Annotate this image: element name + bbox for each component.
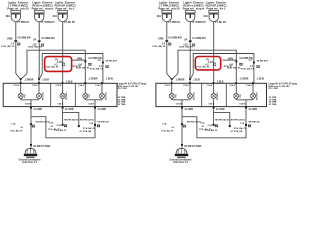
LT fuse block reference text 1 <box>7 0 29 10</box>
LT terminal at lamp E3 <box>62 82 64 84</box>
svg-text:JPC PN6: JPC PN6 <box>117 88 127 90</box>
LT fuse block reference text 2 <box>32 0 54 10</box>
RT wire below bulb E1 <box>171 99 173 100</box>
svg-text:RR-PRK 640: RR-PRK 640 <box>98 121 109 124</box>
RT wire from fuse F1 <box>166 22 168 74</box>
svg-text:LT TURN PV: LT TURN PV <box>41 21 55 24</box>
RT highlighted connector C9 (red box) <box>195 57 220 70</box>
LT ground tie bus wire1 to wire3 <box>31 117 95 138</box>
LT in-line connector C1 on wire F1 <box>14 40 17 42</box>
RT bulb E3 <box>211 93 216 98</box>
svg-text:0.8 ORN 640: 0.8 ORN 640 <box>168 36 182 39</box>
svg-text:.1 BLW: .1 BLW <box>105 78 113 80</box>
svg-text:10A: 10A <box>156 15 161 18</box>
svg-text:P21: P21 <box>24 94 26 97</box>
svg-text:C14 4: C14 4 <box>14 84 20 87</box>
svg-text:PCA_WA_PL: PCA_WA_PL <box>90 67 104 70</box>
svg-text:.1 GRBR: .1 GRBR <box>88 78 98 80</box>
RT jog wire from ground wire2 <box>214 112 230 125</box>
LT terminal at lamp E2 <box>38 82 40 84</box>
svg-text:C14 4: C14 4 <box>229 84 235 87</box>
svg-text:S4 RR-EXT: S4 RR-EXT <box>257 59 269 62</box>
svg-text:4.1: 4.1 <box>51 125 55 128</box>
svg-text:D2: D2 <box>240 64 242 66</box>
LT connector B2 symbol wire2 <box>64 125 67 127</box>
RT ground bus inside assembly E4-E5 <box>236 99 253 101</box>
RT bulb E5 <box>250 93 255 98</box>
svg-text:P21/5W L: P21/5W L <box>194 91 196 100</box>
LT ground splice dot <box>30 144 32 146</box>
svg-text:LT PRK PL: LT PRK PL <box>17 21 30 24</box>
svg-text:B2: B2 <box>98 126 100 128</box>
svg-text:0.4 ORN 640: 0.4 ORN 640 <box>192 37 206 40</box>
RT connector D2 symbol <box>168 43 171 45</box>
RT connector B2 symbol wire1 <box>183 125 186 127</box>
svg-text:S4: S4 <box>184 38 188 41</box>
svg-text:P21: P21 <box>175 94 177 97</box>
svg-text:0.8 ORN 640: 0.8 ORN 640 <box>17 36 31 39</box>
LT connector D2 symbol on bus A <box>89 63 92 65</box>
LT C9 connector symbol <box>62 63 65 66</box>
svg-text:P21/5W L: P21/5W L <box>43 91 45 100</box>
svg-text:ORN: ORN <box>158 37 164 40</box>
LT wire below bulb E4 <box>84 99 86 100</box>
RT connector on ground wire 1 <box>181 123 183 125</box>
svg-text:.1 BLR: .1 BLR <box>193 79 201 81</box>
svg-text:RR-PRK 640 NC: RR-PRK 640 NC <box>80 119 95 122</box>
svg-text:Page ref_ lts-1: Page ref_ lts-1 <box>207 7 226 11</box>
svg-text:4.1 PCA_BA: 4.1 PCA_BA <box>79 130 92 133</box>
RT junction at lamp E1 feed <box>171 78 173 80</box>
LT fuse F1 10A <box>11 11 21 13</box>
RT splice on bus A drop <box>235 60 237 62</box>
svg-text:1.7A: 1.7A <box>240 122 245 125</box>
svg-text:C06 B: C06 B <box>208 104 214 106</box>
svg-text:NCM_WA_PL: NCM_WA_PL <box>28 46 42 49</box>
RT splice on bus B drop <box>253 62 255 64</box>
LT wire from connector C9 to bus A <box>72 59 86 61</box>
svg-text:RR-PRK 640 NC: RR-PRK 640 NC <box>231 119 246 122</box>
LT terminal at lamp E1 <box>20 82 22 84</box>
svg-text:Grid Zone 4-7: Grid Zone 4-7 <box>22 161 38 164</box>
svg-text:C14 4: C14 4 <box>95 84 101 87</box>
svg-text:LT TURN PV: LT TURN PV <box>192 21 206 24</box>
svg-text:4.1: 4.1 <box>202 125 206 128</box>
RT wire from connector C9 to bus A <box>223 59 237 61</box>
RT C9 connector symbol <box>213 63 216 66</box>
svg-text:PCA_WA_PL: PCA_WA_PL <box>45 66 59 69</box>
RT terminal at lamp E1 <box>171 82 173 84</box>
RT terminal at lamp E5 <box>252 82 254 84</box>
RT connector D2 symbol on bus A <box>240 63 243 65</box>
LT wire below bulb E2 <box>38 99 40 100</box>
RT fuse block reference text 1 <box>158 0 180 10</box>
svg-text:B2: B2 <box>249 126 251 128</box>
RT splice S4 on wire F2 <box>189 40 192 42</box>
RT wire into bulb E4 <box>235 85 237 94</box>
svg-text:RR-PRK 640 NC: RR-PRK 640 NC <box>64 118 79 121</box>
svg-text:B2: B2 <box>216 126 218 128</box>
svg-text:1.7A: 1.7A <box>89 122 94 125</box>
RT wire bus B slant into lamp E2 <box>190 74 193 79</box>
LT wire into bulb E2 <box>38 85 40 94</box>
svg-text:Page ref_ stop-it: Page ref_ stop-it <box>183 7 205 11</box>
svg-text:.1 BRBR: .1 BRBR <box>24 79 34 81</box>
svg-text:S4: S4 <box>33 38 37 41</box>
RT ground wire 2 terminal <box>213 124 215 126</box>
LT ground exit terminal x=95.0 <box>94 107 96 109</box>
svg-text:G4 RR FU BAR: G4 RR FU BAR <box>33 145 50 148</box>
RT wire below bulb E3 <box>213 99 215 100</box>
LT ground drop 2 <box>62 100 64 107</box>
svg-text:P21/5W L: P21/5W L <box>106 91 108 100</box>
RT ground symbol G4 <box>176 148 187 153</box>
svg-text:RCA_W: RCA_W <box>73 65 82 68</box>
svg-text:J1-GRD: J1-GRD <box>65 108 74 111</box>
svg-text:J1-GRD: J1-GRD <box>184 108 193 111</box>
RT fuse F1 10A <box>162 11 172 13</box>
svg-text:C06 B: C06 B <box>25 104 31 106</box>
svg-text:Page ref_ stop-it: Page ref_ stop-it <box>32 7 54 11</box>
RT wire below bulb E5 <box>252 99 254 100</box>
svg-text:P21: P21 <box>240 94 242 97</box>
LT wire into bulb E4 <box>84 85 86 94</box>
svg-text:D2: D2 <box>169 44 171 46</box>
LT connector B2 symbol wire1 <box>32 125 35 127</box>
svg-text:J1-GRD: J1-GRD <box>248 108 257 111</box>
LT splice on bus A drop <box>84 60 86 62</box>
svg-text:G4 RR FU BAR: G4 RR FU BAR <box>184 145 201 148</box>
svg-text:JPC PN6: JPC PN6 <box>268 88 278 90</box>
LT connector D2 symbol <box>17 43 20 45</box>
svg-text:J5 TMB: J5 TMB <box>269 104 277 106</box>
RT bulb E1 <box>169 93 174 98</box>
LT splice S4 on wire F2 <box>38 40 41 42</box>
svg-text:C7A: C7A <box>49 121 54 124</box>
LT terminal at lamp E5 <box>101 82 103 84</box>
LT wire F1 slant into lamp E1 <box>16 74 21 79</box>
svg-text:B2: B2 <box>183 126 185 128</box>
LT wire below bulb E3 <box>62 99 64 100</box>
svg-text:D2: D2 <box>106 66 108 68</box>
LT wire bus B to lamp E5 <box>42 54 103 83</box>
LT wire below bulb E1 <box>20 99 22 100</box>
svg-text:4.1 PCA_BA: 4.1 PCA_BA <box>230 130 243 133</box>
svg-text:C14 4: C14 4 <box>246 84 252 87</box>
svg-text:S4 RR-EXT: S4 RR-EXT <box>106 59 118 62</box>
RT fuse F3 10A <box>209 11 219 13</box>
RT ground wire 2 <box>213 109 215 125</box>
svg-text:RCA_W: RCA_W <box>224 65 233 68</box>
LT fuse F2 10A <box>34 11 44 13</box>
svg-text:J1-GRD: J1-GRD <box>97 108 106 111</box>
svg-text:C06 B: C06 B <box>88 104 94 106</box>
svg-text:RR-PRK 640 NC: RR-PRK 640 NC <box>215 118 230 121</box>
svg-text:C06 B: C06 B <box>176 104 182 106</box>
RT ground exit terminal x=31 <box>181 107 183 109</box>
svg-text:PCA_BA_PL: PCA_BA_PL <box>161 129 174 132</box>
svg-text:C06 B: C06 B <box>57 104 63 106</box>
RT assembly divider 1 <box>201 83 203 106</box>
RT ground exit terminal x=95.0 <box>245 107 247 109</box>
svg-text:D2: D2 <box>257 66 259 68</box>
RT wire F2 slant into lamp E2 <box>189 74 192 79</box>
svg-text:10A: 10A <box>52 15 57 18</box>
LT wire F2 slant into lamp E2 <box>38 74 41 79</box>
RT wire bus B to lamp E5 <box>193 54 254 83</box>
LT wire from fuse F2 <box>38 22 40 74</box>
RT wire E2 junction to assembly <box>189 80 191 82</box>
svg-text:LT BU PV: LT BU PV <box>64 21 75 24</box>
RT ground drop 1 <box>181 100 183 107</box>
svg-text:.1 BLR: .1 BLR <box>42 79 50 81</box>
RT ground wire 1 <box>181 109 183 149</box>
LT ground drop 3 <box>94 100 96 107</box>
svg-text:4.1: 4.1 <box>172 126 176 129</box>
LT connector B2 symbol wire3 <box>97 125 100 127</box>
RT terminal at lamp E2 <box>189 82 191 84</box>
LT wire into bulb E5 <box>101 85 103 94</box>
svg-text:PCA_BA_PL: PCA_BA_PL <box>10 129 23 132</box>
svg-text:Grid Zone 4-7: Grid Zone 4-7 <box>173 161 189 164</box>
LT wire E2 junction to assembly <box>38 80 40 82</box>
svg-text:PCA_WA_PL: PCA_WA_PL <box>196 66 210 69</box>
LT wire from fuse F1 <box>15 22 17 74</box>
svg-text:C06 B: C06 B <box>239 104 245 106</box>
LT fuse F3 10A <box>58 11 68 13</box>
svg-text:D2: D2 <box>42 45 44 47</box>
RT ground drop 3 <box>245 100 247 107</box>
svg-text:P21/5W L: P21/5W L <box>217 91 219 100</box>
svg-text:D2: D2 <box>18 44 20 46</box>
LT junction at lamp E2 feed <box>38 78 40 80</box>
RT bulb E4 <box>234 93 239 98</box>
LT connector D2 symbol on wire F2 <box>41 44 44 46</box>
LT rear lamp assembly box <box>3 83 117 106</box>
svg-text:B2: B2 <box>65 126 67 128</box>
RT in-line connector C1 on wire F1 <box>165 40 168 42</box>
LT bulb E4 <box>83 93 88 98</box>
svg-text:0.4 ORN 640: 0.4 ORN 640 <box>41 37 55 40</box>
svg-text:PCA_WA_PL: PCA_WA_PL <box>241 67 255 70</box>
svg-text:2.1A: 2.1A <box>57 124 62 127</box>
svg-text:PCA_BA_PL: PCA_BA_PL <box>234 127 247 130</box>
svg-text:P21/5W L: P21/5W L <box>66 91 68 100</box>
LT fuse block reference text 3 <box>55 0 77 10</box>
RT connector D2 symbol on wire F2 <box>192 44 195 46</box>
svg-text:C14 4: C14 4 <box>32 84 38 87</box>
svg-text:PCA_WA_PL: PCA_WA_PL <box>152 45 166 48</box>
svg-text:ORN: ORN <box>77 59 82 61</box>
LT ground wire 2 <box>62 109 64 125</box>
LT bulb E5 <box>99 93 104 98</box>
svg-text:PCA_BA_PL: PCA_BA_PL <box>54 129 67 132</box>
RT wire into bulb E3 <box>213 85 215 94</box>
RT wire F1 slant into lamp E1 <box>167 74 172 79</box>
RT terminal at lamp E3 <box>213 82 215 84</box>
LT ground bus inside assembly E4-E5 <box>85 99 102 101</box>
svg-text:10A: 10A <box>203 15 208 18</box>
svg-text:C14 4: C14 4 <box>207 84 213 87</box>
RT bulb E2 <box>187 93 192 98</box>
RT assembly divider 2 <box>225 83 227 106</box>
RT jog wire terminal <box>229 125 231 127</box>
svg-text:.1 GRBR: .1 GRBR <box>239 78 249 80</box>
LT highlighted connector C9 (red box) <box>45 57 72 72</box>
LT ground drop 1 <box>30 100 32 107</box>
svg-text:Page ref_ prk-10: Page ref_ prk-10 <box>7 7 29 11</box>
svg-text:L.PA: L.PA <box>57 61 62 64</box>
RT ground wire 3 <box>245 109 247 125</box>
svg-text:C7A: C7A <box>200 121 205 124</box>
LT ground exit terminal x=31 <box>30 107 32 109</box>
LT assembly part info text <box>117 83 146 107</box>
LT wire below bulb E5 <box>101 99 103 100</box>
LT junction at lamp E1 feed <box>20 78 22 80</box>
svg-text:J5 TMB: J5 TMB <box>118 104 126 106</box>
svg-text:PCA_BA_PL: PCA_BA_PL <box>83 127 96 130</box>
RT wire below bulb E4 <box>235 99 237 100</box>
svg-text:2.1A: 2.1A <box>208 124 213 127</box>
RT connector D2 symbol on bus B <box>257 65 260 67</box>
LT ground wire 3 terminal <box>94 124 96 126</box>
RT fuse block reference text 3 <box>206 0 228 10</box>
RT ground wire 3 terminal <box>245 124 247 126</box>
svg-text:C14 4: C14 4 <box>183 84 189 87</box>
RT wire bus A to lamp E4 <box>178 50 236 82</box>
svg-text:RR-PRK 640: RR-PRK 640 <box>249 121 260 124</box>
LT connector on ground wire 1 <box>30 123 32 125</box>
RT fuse F2 10A <box>185 11 195 13</box>
LT assembly divider 1 <box>50 83 52 106</box>
svg-text:C14 4: C14 4 <box>56 84 62 87</box>
RT wire from fuse F2 <box>189 22 191 74</box>
LT bulb E1 <box>18 93 23 98</box>
svg-text:4.1: 4.1 <box>21 126 25 129</box>
RT fuse block reference text 2 <box>183 0 205 10</box>
RT ground bus inside assembly E1-E2 <box>172 99 190 101</box>
LT bulb E2 <box>36 93 41 98</box>
RT ground tie bus wire1 to wire3 <box>182 117 246 138</box>
LT ground bus inside assembly E1-E2 <box>21 99 39 101</box>
RT ground exit terminal x=62.6 <box>213 107 215 109</box>
RT wire below bulb E2 <box>189 99 191 100</box>
RT wire bus A slant into lamp E1 <box>172 74 178 79</box>
svg-text:B2: B2 <box>32 126 34 128</box>
svg-text:PCA_WA_PL: PCA_WA_PL <box>1 45 15 48</box>
svg-text:Page ref_ lts-1: Page ref_ lts-1 <box>56 7 75 11</box>
LT wire bus B slant into lamp E2 <box>39 74 42 79</box>
LT terminal at lamp E4 <box>84 82 86 84</box>
LT ground wire 1 <box>30 109 32 149</box>
RT wire E1 junction to assembly <box>171 80 173 82</box>
svg-text:C14 4: C14 4 <box>78 84 84 87</box>
LT jog wire from ground wire2 <box>63 112 79 125</box>
svg-text:10A: 10A <box>5 15 10 18</box>
RT wire from fuse F3 through connector to lamp E3 <box>213 22 215 83</box>
RT connector B2 symbol wire2 <box>215 125 218 127</box>
LT wire bus A to lamp E4 <box>27 50 85 82</box>
LT ground exit terminal x=62.6 <box>62 107 64 109</box>
LT wire from fuse F3 through connector to lamp E3 <box>62 22 64 83</box>
svg-text:P21: P21 <box>89 94 91 97</box>
svg-text:.1 BRBR: .1 BRBR <box>175 79 185 81</box>
svg-text:ORN: ORN <box>7 37 13 40</box>
svg-text:L.PA: L.PA <box>208 61 213 64</box>
LT wire bus A slant into lamp E1 <box>21 74 27 79</box>
LT wire into bulb E1 <box>20 85 22 94</box>
LT jog wire terminal <box>78 125 80 127</box>
svg-text:PCA_BA_PL: PCA_BA_PL <box>205 129 218 132</box>
RT wire into bulb E2 <box>189 85 191 94</box>
svg-text:J1-GRD: J1-GRD <box>216 108 225 111</box>
svg-text:Page ref_ prk-10: Page ref_ prk-10 <box>158 7 180 11</box>
LT ground symbol G4 <box>25 148 36 153</box>
RT wire into bulb E5 <box>252 85 254 94</box>
RT junction at lamp E2 feed <box>189 78 191 80</box>
svg-text:ORN: ORN <box>228 59 233 61</box>
LT wire into bulb E3 <box>62 85 64 94</box>
LT wire E1 junction to assembly <box>20 80 22 82</box>
LT splice on bus B drop <box>102 62 104 64</box>
RT connector B2 symbol wire3 <box>248 125 251 127</box>
svg-text:LT BU PV: LT BU PV <box>215 21 226 24</box>
left tail lamp circuit <box>1 0 146 164</box>
RT assembly part info text <box>268 83 297 107</box>
RT ground splice dot <box>181 144 183 146</box>
svg-text:D2: D2 <box>193 45 195 47</box>
RT terminal at lamp E4 <box>235 82 237 84</box>
svg-text:NCM_WA_PL: NCM_WA_PL <box>179 46 193 49</box>
svg-text:P21/5W L: P21/5W L <box>257 91 259 100</box>
svg-text:C14 4: C14 4 <box>165 84 171 87</box>
LT ground wire 3 <box>94 109 96 125</box>
svg-text:C7A: C7A <box>162 123 167 126</box>
LT connector D2 symbol on bus B <box>106 65 109 67</box>
right tail lamp circuit <box>152 0 297 164</box>
LT ground wire 2 terminal <box>62 124 64 126</box>
svg-text:J1-GRD: J1-GRD <box>33 108 42 111</box>
LT assembly divider 2 <box>74 83 76 106</box>
RT ground drop 2 <box>213 100 215 107</box>
svg-text:D2: D2 <box>89 64 91 66</box>
svg-text:C7A: C7A <box>11 123 16 126</box>
svg-text:.1 BLW: .1 BLW <box>256 78 264 80</box>
RT rear lamp assembly box <box>156 83 267 106</box>
LT bulb E3 <box>60 93 65 98</box>
RT wire into bulb E1 <box>171 85 173 94</box>
svg-text:LT PRK PL: LT PRK PL <box>168 21 181 24</box>
